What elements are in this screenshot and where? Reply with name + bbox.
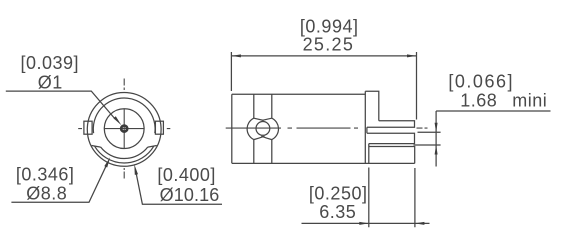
svg-text:Ø1: Ø1 xyxy=(38,73,63,93)
dimension 25.25 extension and dimension lines xyxy=(231,52,416,120)
dimension 1.68 up arrowhead xyxy=(435,145,438,155)
left index tab xyxy=(84,121,92,134)
right index tab xyxy=(155,121,163,134)
upper slot closure xyxy=(366,127,368,133)
leader line for Ø1 xyxy=(6,91,115,119)
detent spring bulge arcs xyxy=(247,118,278,139)
svg-text:[0.400]: [0.400] xyxy=(157,165,216,185)
side view horizontal centerline xyxy=(226,127,428,129)
dimension 6.35 left-pointing arrowhead xyxy=(415,222,425,225)
dimension 1.68 down arrowhead xyxy=(435,123,438,133)
front view bottom slot inner arc xyxy=(101,147,148,159)
front view inner shell arc (Ø8.8) xyxy=(93,98,155,133)
front view outer shell circle (Ø10.16) xyxy=(87,92,161,166)
front view vertical centerline xyxy=(123,79,125,179)
leader arrowhead Ø10.16 xyxy=(134,164,138,175)
lower leg left edge xyxy=(368,144,370,164)
svg-text:[0.346]: [0.346] xyxy=(16,165,75,185)
side view body outline xyxy=(232,91,415,163)
dimension 1.68 leader and extension lines xyxy=(414,111,551,167)
dimension 25.25 left arrowhead xyxy=(231,54,241,57)
svg-text:[0.066]: [0.066] xyxy=(448,71,514,91)
leader arrowhead Ø1 xyxy=(113,116,121,125)
center pin tab (side view) xyxy=(367,121,415,128)
front view dielectric bore circle xyxy=(104,109,144,149)
svg-text:25.25: 25.25 xyxy=(303,34,355,54)
detent column verticals xyxy=(254,94,272,163)
svg-text:[0.250]: [0.250] xyxy=(309,184,368,204)
svg-text:Ø10.16: Ø10.16 xyxy=(160,185,220,205)
dimension 6.35 right-pointing arrowhead xyxy=(359,222,369,225)
svg-text:[0.039]: [0.039] xyxy=(21,53,80,73)
svg-text:Ø8.8: Ø8.8 xyxy=(26,184,67,204)
middle mounting leg xyxy=(367,133,415,143)
front view bottom slot outer arc xyxy=(95,146,154,163)
center contact pin dot (Ø1) xyxy=(121,126,127,132)
dimension 6.35 extension and dimension lines xyxy=(302,168,430,228)
leader line for Ø8.8 xyxy=(11,165,106,202)
dimension 25.25 right arrowhead xyxy=(407,54,417,57)
svg-text:mini: mini xyxy=(512,90,547,110)
front view horizontal centerline xyxy=(78,128,170,130)
detent ball circle xyxy=(256,121,270,135)
lower mounting leg xyxy=(369,147,415,164)
slot left end cap xyxy=(92,146,101,148)
svg-text:1.68: 1.68 xyxy=(460,90,497,110)
rear post xyxy=(365,91,379,121)
svg-text:6.35: 6.35 xyxy=(319,202,356,222)
leader arrowhead Ø8.8 xyxy=(104,157,110,167)
slot right end cap xyxy=(148,146,157,148)
leader line for Ø10.16 xyxy=(136,172,222,204)
